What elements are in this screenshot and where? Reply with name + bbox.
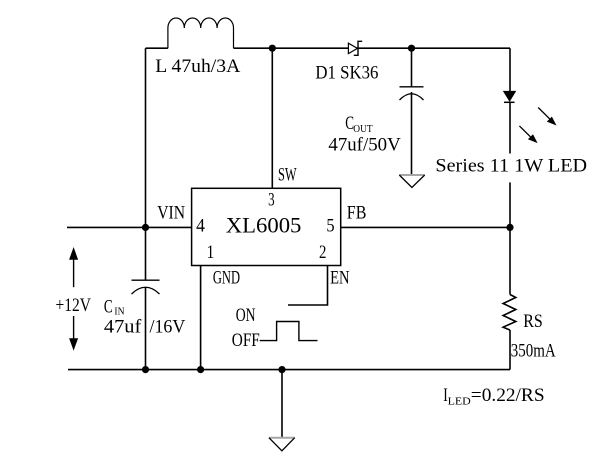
svg-text:GND: GND xyxy=(213,268,240,289)
svg-text:2: 2 xyxy=(319,242,326,263)
svg-text:RS: RS xyxy=(523,311,543,332)
svg-text:LED: LED xyxy=(448,396,471,408)
svg-text:47uf/50V: 47uf/50V xyxy=(328,135,401,156)
svg-text:C: C xyxy=(104,296,113,317)
svg-text:EN: EN xyxy=(330,268,350,289)
svg-text:+12V: +12V xyxy=(56,295,92,316)
svg-text:/16V: /16V xyxy=(150,317,186,338)
svg-text:4: 4 xyxy=(196,216,205,237)
svg-text:SW: SW xyxy=(278,165,297,186)
svg-text:OUT: OUT xyxy=(353,123,373,135)
svg-text:1: 1 xyxy=(207,242,215,263)
svg-text:VIN: VIN xyxy=(157,202,185,223)
svg-text:350mA: 350mA xyxy=(511,341,556,362)
svg-text:5: 5 xyxy=(326,216,334,237)
svg-text:=0.22/RS: =0.22/RS xyxy=(471,385,545,406)
svg-text:3: 3 xyxy=(268,190,275,211)
svg-text:Series 11 1W LED: Series 11 1W LED xyxy=(435,156,587,177)
svg-text:D1 SK36: D1 SK36 xyxy=(315,62,378,83)
svg-text:ON: ON xyxy=(236,305,256,326)
svg-text:47uf: 47uf xyxy=(104,317,142,338)
svg-text:XL6005: XL6005 xyxy=(226,213,302,238)
svg-text:OFF: OFF xyxy=(232,330,260,351)
svg-text:L 47uh/3A: L 47uh/3A xyxy=(155,56,240,77)
svg-text:FB: FB xyxy=(347,203,367,224)
